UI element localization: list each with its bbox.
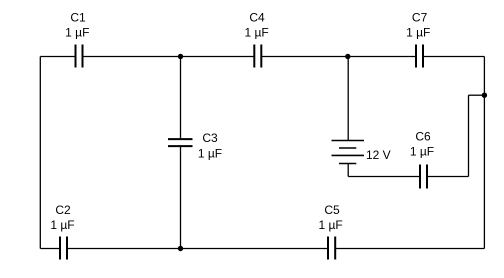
capacitor C5	[328, 237, 335, 260]
wire battery top stub	[347, 57, 349, 141]
wire bottom left segment	[40, 248, 60, 250]
capacitor C6	[420, 165, 427, 189]
svg-text:C7: C7	[412, 11, 428, 25]
wire battery bottom stub	[347, 164, 349, 177]
wire right side	[483, 57, 485, 249]
wire left side	[39, 57, 41, 249]
svg-text:1 µF: 1 µF	[410, 145, 434, 159]
svg-text:1 µF: 1 µF	[50, 218, 74, 232]
capacitor C7	[416, 45, 423, 68]
wire bottom between C2 and C5	[67, 248, 328, 250]
svg-text:C6: C6	[415, 130, 431, 144]
svg-text:1 µF: 1 µF	[318, 218, 342, 232]
wire C6 branch horizontal	[469, 94, 485, 96]
svg-text:12 V: 12 V	[366, 148, 391, 162]
wire C6 branch vertical	[468, 95, 470, 176]
wire top between C1 and C4	[83, 56, 255, 58]
svg-text:C4: C4	[249, 11, 265, 25]
svg-text:1 µF: 1 µF	[198, 147, 222, 161]
wire middle vertical upper	[180, 57, 182, 140]
svg-text:C3: C3	[202, 131, 218, 145]
capacitor C2	[60, 237, 67, 260]
wire top left segment	[40, 56, 75, 58]
wire middle vertical lower	[180, 146, 182, 248]
wire top between C4 and C7	[261, 56, 416, 58]
capacitor C4	[254, 45, 261, 68]
svg-text:C2: C2	[55, 203, 71, 217]
svg-text:1 µF: 1 µF	[244, 26, 268, 40]
junction node top battery	[345, 54, 350, 59]
svg-text:1 µF: 1 µF	[65, 26, 89, 40]
svg-text:C5: C5	[324, 203, 340, 217]
wire battery to C6	[348, 176, 420, 178]
battery V1 12 V	[332, 141, 365, 164]
wire C6 to corner	[427, 176, 469, 178]
svg-text:C1: C1	[70, 11, 86, 25]
junction node top middle	[178, 54, 183, 59]
wire bottom right segment	[335, 248, 484, 250]
capacitor C1	[76, 45, 83, 68]
capacitor C3	[168, 139, 193, 146]
junction node bottom middle	[178, 246, 183, 251]
wire top right segment	[423, 56, 484, 58]
junction node right side	[482, 93, 487, 98]
svg-text:1 µF: 1 µF	[406, 26, 430, 40]
